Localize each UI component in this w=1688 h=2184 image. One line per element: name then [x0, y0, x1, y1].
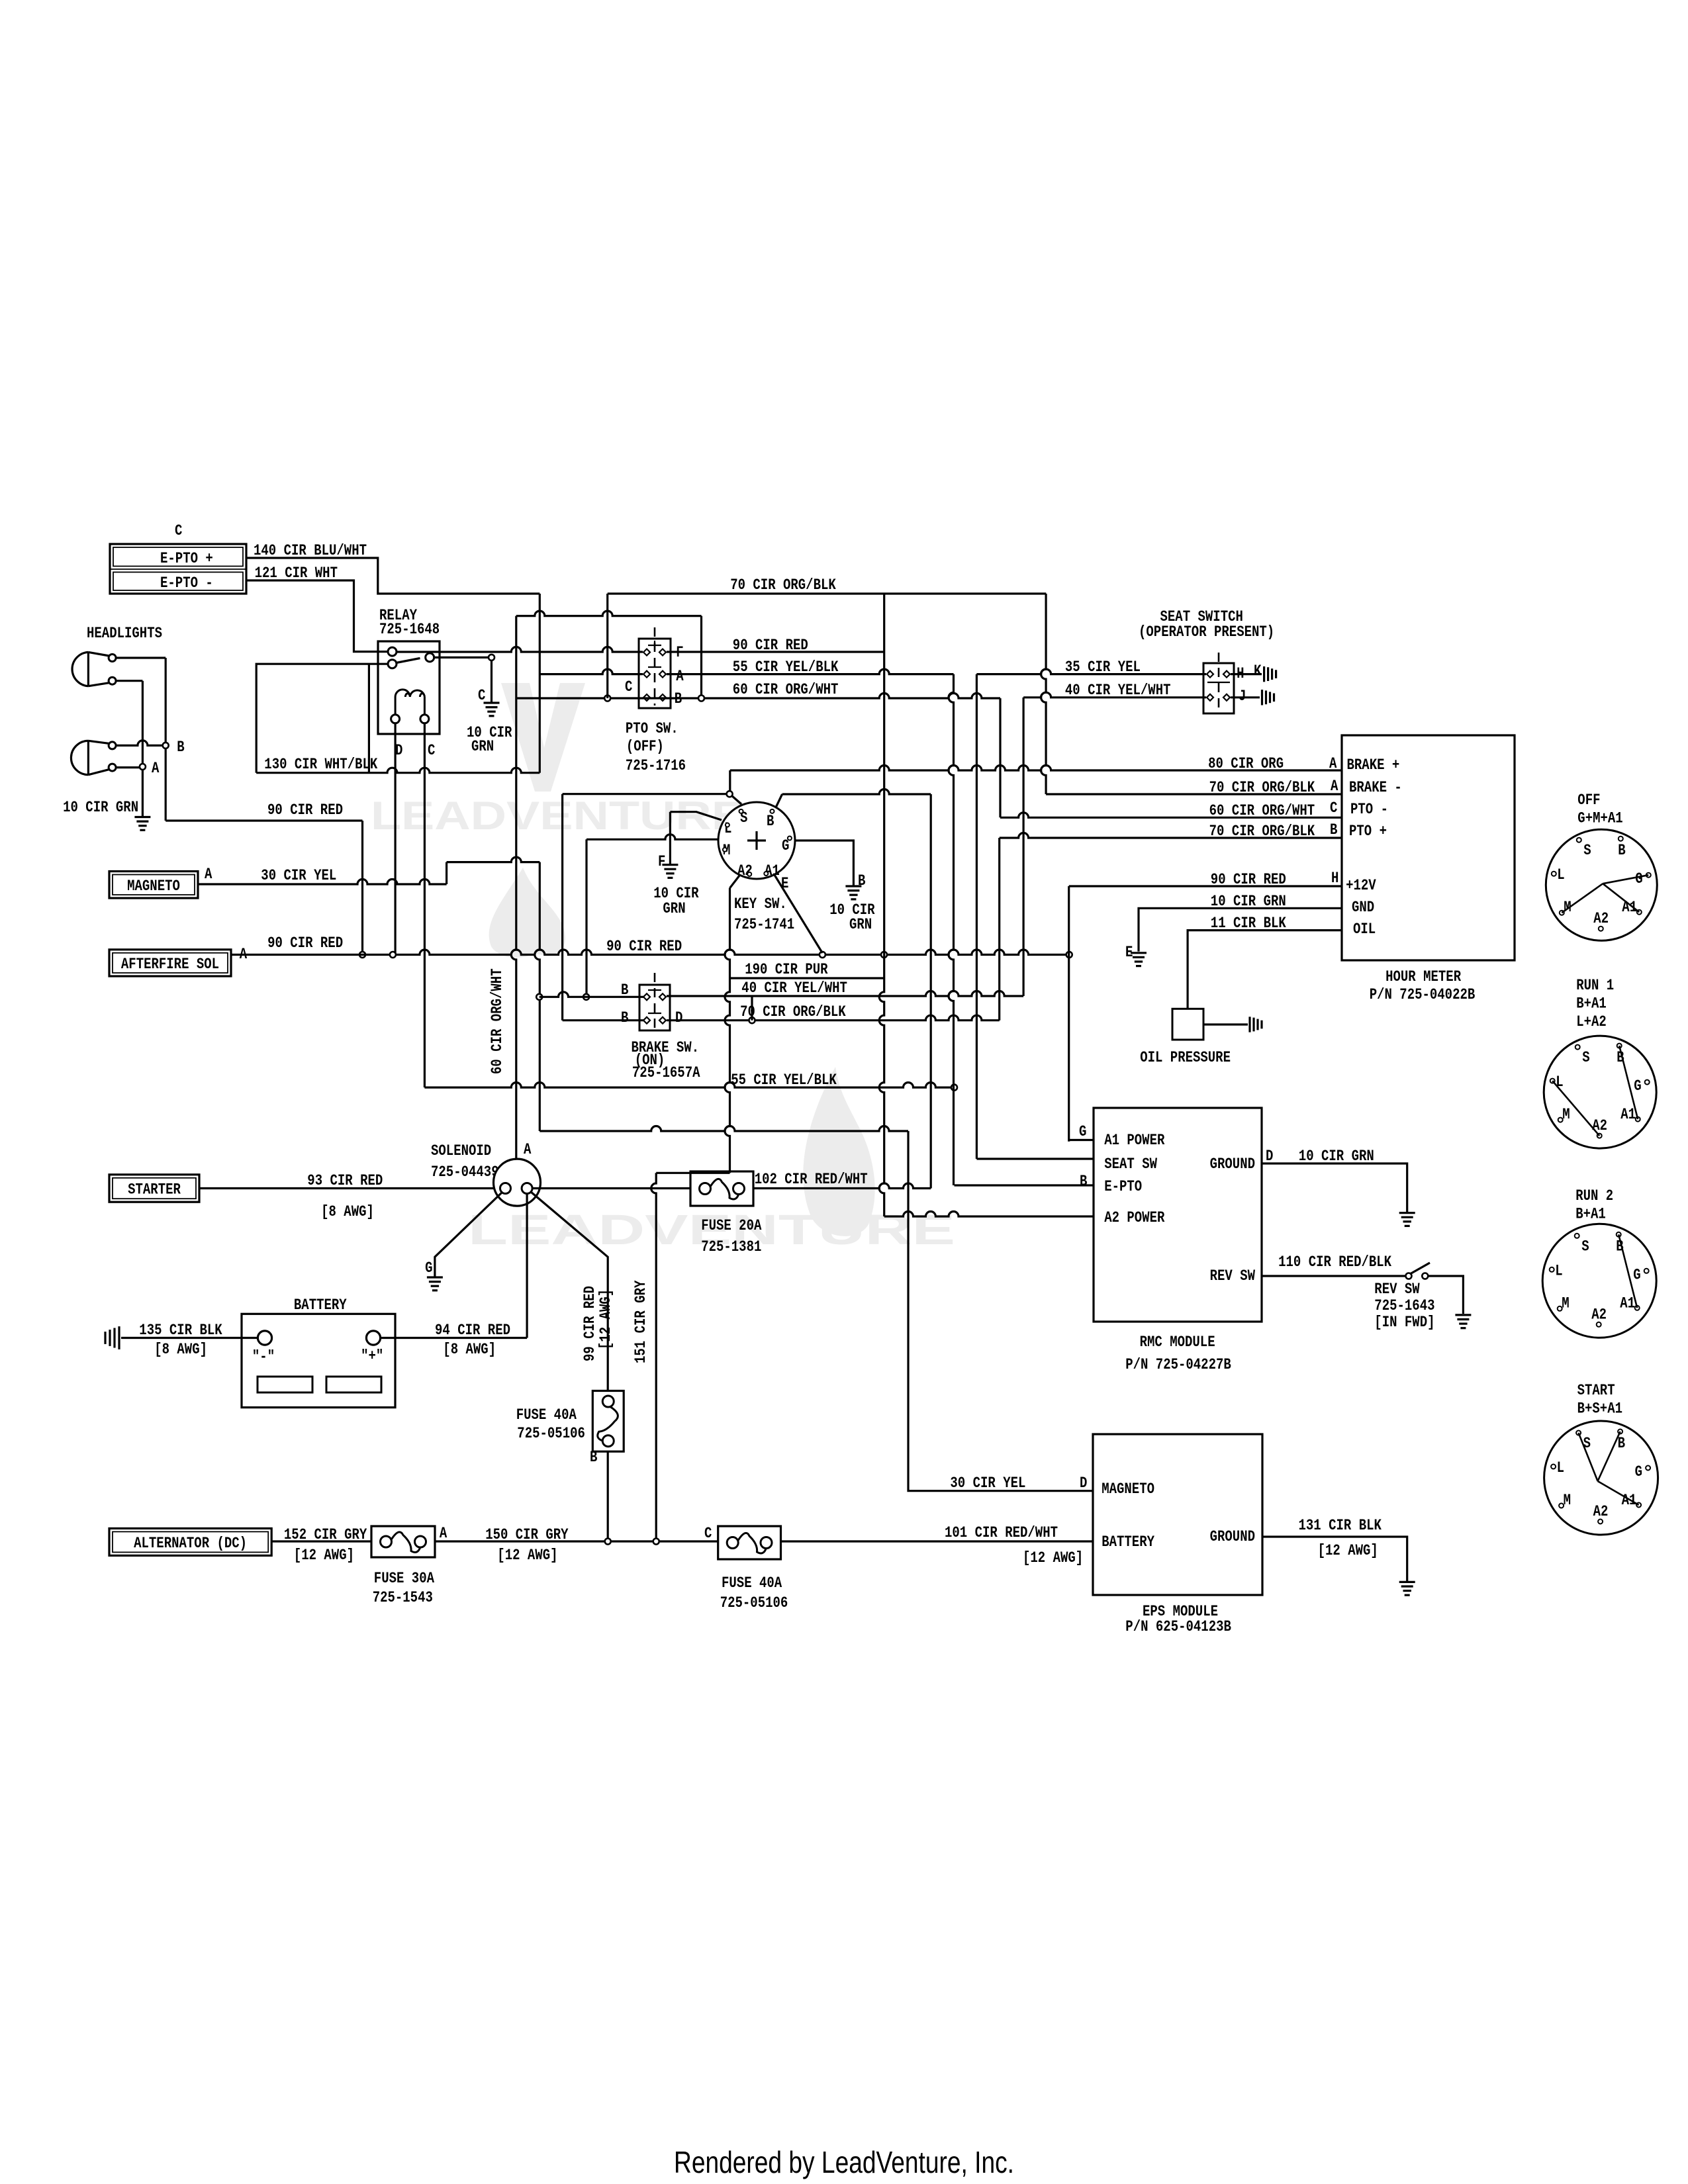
- junction brake bottom row: [749, 1017, 755, 1023]
- junction 55 bus to RMC E-PTO trunk: [951, 1085, 957, 1091]
- svg-text:PTO SW.: PTO SW.: [626, 720, 679, 738]
- svg-text:725-05106: 725-05106: [720, 1594, 788, 1612]
- C row from x851 trunk to key C: [563, 793, 727, 795]
- svg-text:90 CIR RED: 90 CIR RED: [267, 934, 343, 952]
- svg-text:FUSE 20A: FUSE 20A: [701, 1217, 762, 1235]
- svg-text:99 CIR RED: 99 CIR RED: [581, 1286, 599, 1361]
- BRAKE - row from top bus trunk: [1046, 793, 1342, 795]
- FUSE 20A box: [690, 1171, 753, 1206]
- svg-text:BATTERY: BATTERY: [294, 1297, 348, 1314]
- svg-text:B: B: [1080, 1173, 1087, 1191]
- svg-text:L: L: [1557, 866, 1564, 884]
- solenoid G diagonal and ground: [435, 1193, 502, 1277]
- 40 CIR YEL/WHT row from brake: [667, 991, 1023, 997]
- 70 CIR ORG/BLK row from brake bottom: [667, 1015, 1000, 1021]
- vertical trunk x851 from C row to brake switch: [561, 794, 563, 1021]
- svg-text:GROUND: GROUND: [1210, 1156, 1255, 1173]
- svg-text:11 CIR BLK: 11 CIR BLK: [1211, 915, 1287, 933]
- junction 151 on 150 row: [653, 1539, 659, 1545]
- svg-text:HEADLIGHTS: HEADLIGHTS: [87, 625, 162, 643]
- svg-text:90 CIR RED: 90 CIR RED: [606, 938, 682, 956]
- svg-text:A1 POWER: A1 POWER: [1104, 1132, 1165, 1150]
- svg-text:55 CIR YEL/BLK: 55 CIR YEL/BLK: [731, 1071, 837, 1089]
- 11 CIR BLK OIL row: [1188, 931, 1342, 1009]
- seat H ground wire: [1231, 673, 1262, 675]
- svg-text:B: B: [1330, 821, 1337, 839]
- svg-text:GRN: GRN: [663, 900, 685, 918]
- svg-text:GRN: GRN: [849, 916, 872, 934]
- svg-text:102 CIR RED/WHT: 102 CIR RED/WHT: [755, 1171, 868, 1189]
- A2 jog to 151 trunk: [656, 1172, 729, 1174]
- 40 CIR YEL/WHT seat row: [1023, 692, 1206, 697]
- E-PTO connector box: [110, 544, 246, 594]
- svg-text:A1: A1: [1620, 1295, 1635, 1312]
- svg-text:A1: A1: [1620, 1106, 1636, 1124]
- svg-text:140 CIR BLU/WHT: 140 CIR BLU/WHT: [254, 542, 367, 560]
- junction 99 on 150 row: [605, 1539, 611, 1545]
- svg-text:B: B: [590, 1449, 597, 1467]
- svg-text:135 CIR BLK: 135 CIR BLK: [139, 1322, 222, 1340]
- key position RUN 2 circle: [1542, 1224, 1656, 1338]
- seat J ground wire: [1231, 696, 1260, 698]
- wire 121 CIR WHT from E-PTO- to relay contact: [246, 580, 388, 652]
- svg-text:B: B: [177, 739, 184, 756]
- REV SW blade: [1410, 1263, 1430, 1274]
- ALTERNATOR box: [109, 1528, 271, 1555]
- svg-text:A2: A2: [737, 862, 753, 880]
- svg-text:MAGNETO: MAGNETO: [127, 878, 180, 895]
- svg-text:E-PTO: E-PTO: [1104, 1178, 1142, 1196]
- relay 725-1648 box: [378, 641, 440, 734]
- svg-text:A2: A2: [1593, 910, 1609, 928]
- battery cell rectangles: [258, 1377, 312, 1392]
- svg-text:80 CIR ORG: 80 CIR ORG: [1208, 755, 1284, 773]
- vertical hour meter trunk: [1068, 886, 1070, 1142]
- PTO SW pins row F: [643, 649, 650, 656]
- svg-text:35 CIR YEL: 35 CIR YEL: [1065, 659, 1141, 676]
- vertical brake bottom to PTO+ row: [998, 838, 1000, 1021]
- key A2 diagonal: [730, 876, 740, 888]
- svg-text:LEADVENTURE: LEADVENTURE: [371, 794, 745, 838]
- RMC ground wire: [1262, 1163, 1407, 1212]
- 70 CIR ORG/BLK PTO+ row: [1000, 833, 1342, 839]
- vertical wire B trunk: [165, 658, 167, 821]
- svg-text:B: B: [1618, 842, 1625, 860]
- svg-text:110 CIR RED/BLK: 110 CIR RED/BLK: [1278, 1253, 1392, 1271]
- A1 POWER feed: [1069, 1139, 1094, 1141]
- 150 CIR GRY row: [435, 1540, 718, 1542]
- PTO SW actuator dashes: [654, 627, 656, 705]
- connector circle on 60 row: [604, 696, 610, 702]
- headlight lamp 2: [71, 741, 88, 774]
- headlight ground: [134, 816, 150, 818]
- AFTERFIRE SOL box: [109, 950, 231, 976]
- watermark flame 2: [803, 1067, 874, 1236]
- svg-text:70 CIR ORG/BLK: 70 CIR ORG/BLK: [1209, 779, 1315, 797]
- svg-text:40 CIR YEL/WHT: 40 CIR YEL/WHT: [741, 979, 847, 997]
- svg-text:152 CIR GRY: 152 CIR GRY: [284, 1526, 367, 1544]
- battery negative wire and ground: [121, 1337, 258, 1339]
- relay coil terminal D: [391, 715, 400, 723]
- svg-text:55 CIR YEL/BLK: 55 CIR YEL/BLK: [733, 659, 839, 676]
- svg-text:725-1648: 725-1648: [379, 621, 440, 639]
- svg-text:PTO -: PTO -: [1350, 801, 1388, 819]
- junction at brake row x886: [583, 994, 589, 1000]
- svg-text:OIL: OIL: [1353, 921, 1376, 938]
- wire PTO B row 60 CIR ORG/WHT: [516, 694, 1000, 699]
- 90 red link row under top bus: [516, 611, 702, 615]
- svg-text:P/N 725-04227B: P/N 725-04227B: [1125, 1356, 1231, 1374]
- svg-text:C: C: [625, 678, 632, 696]
- svg-text:[12 AWG]: [12 AWG]: [1318, 1542, 1378, 1560]
- watermark V logo: [501, 683, 585, 792]
- wire relay D to 90 bus: [394, 723, 396, 955]
- vertical from top bus to BRAKE - row: [1041, 594, 1046, 794]
- solenoid to 99 CIR RED diagonal: [531, 1192, 608, 1391]
- STARTER box: [109, 1175, 199, 1202]
- wire PTO A row left: [539, 669, 643, 674]
- svg-text:94 CIR RED: 94 CIR RED: [435, 1322, 510, 1340]
- relay coil terminal C: [420, 715, 429, 723]
- svg-text:C: C: [704, 1525, 712, 1543]
- svg-text:10 CIR GRN: 10 CIR GRN: [1299, 1148, 1374, 1165]
- 80 CIR ORG row to hour meter: [730, 766, 1342, 770]
- svg-text:OFF: OFF: [1577, 792, 1600, 809]
- svg-text:ALTERNATOR (DC): ALTERNATOR (DC): [134, 1535, 247, 1553]
- key switch center cross: [747, 839, 766, 841]
- svg-text:(OPERATOR PRESENT): (OPERATOR PRESENT): [1139, 623, 1274, 641]
- svg-text:[8 AWG]: [8 AWG]: [443, 1341, 496, 1359]
- vertical link x557 between relay row and 130 row: [368, 664, 370, 772]
- svg-text:725-1716: 725-1716: [626, 757, 686, 775]
- relay contact top-right: [426, 653, 434, 662]
- wire alternator to fuse 30A: [271, 1540, 371, 1542]
- svg-text:70 CIR ORG/BLK: 70 CIR ORG/BLK: [740, 1003, 846, 1021]
- svg-text:MAGNETO: MAGNETO: [1102, 1480, 1154, 1498]
- solenoid terminals: [500, 1183, 511, 1194]
- wire lamp1 top to B trunk: [116, 657, 165, 659]
- REV SW ground: [1455, 1314, 1471, 1316]
- connector circle on 60 row x1060: [698, 696, 704, 702]
- svg-text:REV SW: REV SW: [1374, 1281, 1420, 1298]
- svg-text:G: G: [1079, 1123, 1086, 1141]
- svg-text:A1: A1: [1622, 1492, 1637, 1510]
- svg-text:725-1381: 725-1381: [701, 1238, 761, 1256]
- FUSE 40A second box: [718, 1526, 781, 1559]
- svg-text:101 CIR RED/WHT: 101 CIR RED/WHT: [945, 1524, 1058, 1542]
- wire lamp1 bottom to A trunk: [116, 680, 142, 682]
- seat actuator dashes: [1218, 653, 1220, 711]
- svg-text:150 CIR GRY: 150 CIR GRY: [485, 1526, 569, 1544]
- key G ground: [845, 885, 861, 887]
- key L ground stem: [669, 812, 671, 865]
- svg-text:L+A2: L+A2: [1576, 1013, 1607, 1031]
- svg-text:"+": "+": [361, 1347, 383, 1365]
- svg-text:A: A: [676, 668, 684, 686]
- svg-text:725-1543: 725-1543: [373, 1589, 433, 1607]
- 151 CIR GRY vertical: [651, 1173, 657, 1541]
- vertical 40 net riser to seat row: [1022, 698, 1024, 996]
- svg-text:725-1741: 725-1741: [734, 916, 794, 934]
- svg-text:RMC MODULE: RMC MODULE: [1140, 1334, 1215, 1351]
- oil pressure ground wire: [1203, 1023, 1248, 1025]
- svg-text:90 CIR RED: 90 CIR RED: [1211, 871, 1286, 889]
- svg-text:725-1643: 725-1643: [1374, 1297, 1434, 1315]
- svg-text:10 CIR GRN: 10 CIR GRN: [63, 799, 138, 817]
- svg-text:B+A1: B+A1: [1576, 995, 1607, 1013]
- svg-text:A2: A2: [1592, 1117, 1607, 1135]
- svg-text:STARTER: STARTER: [128, 1181, 181, 1199]
- relay contact row2: [388, 660, 397, 668]
- solenoid to battery positive: [526, 1194, 528, 1338]
- key position OFF contact lines: [1562, 884, 1603, 913]
- wire magneto riser: [445, 862, 447, 884]
- 90 CIR RED +12V row: [1069, 885, 1342, 887]
- key A2 vertical: [725, 888, 729, 1173]
- svg-text:L: L: [1555, 1262, 1562, 1280]
- svg-text:10 CIR GRN: 10 CIR GRN: [1211, 893, 1286, 911]
- svg-text:E-PTO +: E-PTO +: [160, 550, 213, 568]
- RMC MODULE box: [1094, 1108, 1262, 1322]
- svg-text:131 CIR BLK: 131 CIR BLK: [1299, 1517, 1382, 1535]
- svg-text:725-1657A: 725-1657A: [632, 1064, 700, 1082]
- key position RUN 1 circle: [1544, 1036, 1656, 1148]
- wire brake top row left segment: [539, 992, 644, 997]
- FUSE 30A box: [371, 1526, 435, 1557]
- wire relay C coil to 55 bus: [424, 723, 426, 1087]
- key B row: [782, 790, 931, 794]
- hour meter E ground: [1131, 952, 1147, 954]
- vertical M trunk from key M row to brake switch: [585, 839, 587, 997]
- wire 140 CIR BLU/WHT from E-PTO+: [246, 558, 539, 594]
- svg-text:60 CIR ORG/WHT: 60 CIR ORG/WHT: [1209, 802, 1315, 820]
- svg-text:BATTERY: BATTERY: [1102, 1533, 1155, 1551]
- svg-text:60 CIR ORG/WHT: 60 CIR ORG/WHT: [733, 681, 839, 699]
- PTO SW pins row A: [643, 671, 650, 678]
- node A: [140, 764, 146, 770]
- svg-text:G: G: [1634, 1077, 1641, 1095]
- vertical link between 140 and 130 wires: [539, 594, 541, 773]
- key position START contact lines: [1579, 1433, 1598, 1481]
- vertical 60 trunk: [511, 616, 516, 1159]
- svg-text:GND: GND: [1352, 899, 1374, 917]
- BRAKE SW box: [639, 985, 670, 1030]
- relay switch blade: [397, 659, 420, 663]
- svg-text:M: M: [1562, 1295, 1569, 1312]
- wire relay row2 to left trunk and 130 row: [256, 664, 388, 772]
- svg-text:B: B: [621, 1009, 628, 1027]
- key position START circle: [1544, 1421, 1658, 1535]
- solenoid circle: [494, 1159, 541, 1206]
- battery positive wire: [381, 1337, 528, 1339]
- REV SW ground wire: [1428, 1276, 1463, 1314]
- REV SW wire: [1262, 1275, 1406, 1277]
- svg-text:A: A: [524, 1141, 532, 1159]
- svg-text:S: S: [1583, 842, 1591, 860]
- EPS ground wire: [1262, 1537, 1407, 1582]
- svg-text:C: C: [1330, 799, 1337, 817]
- vertical drop from left 90 red to 90 bus: [361, 821, 363, 955]
- svg-text:130 CIR WHT/BLK: 130 CIR WHT/BLK: [264, 756, 378, 774]
- wire 90 CIR RED from headlight B node: [165, 819, 362, 821]
- svg-text:FUSE 30A: FUSE 30A: [374, 1570, 435, 1588]
- svg-text:M: M: [1562, 1106, 1570, 1124]
- svg-text:B: B: [858, 872, 865, 890]
- svg-text:[IN FWD]: [IN FWD]: [1374, 1314, 1434, 1332]
- svg-text:AFTERFIRE SOL: AFTERFIRE SOL: [121, 956, 219, 974]
- key C riser to 80 row: [729, 770, 731, 791]
- svg-text:D: D: [1080, 1475, 1087, 1492]
- svg-text:S: S: [1582, 1049, 1589, 1067]
- FUSE 40A vertical: [592, 1391, 624, 1452]
- svg-text:A: A: [152, 760, 160, 778]
- junction hour meter trunk on 90 bus: [1066, 952, 1072, 958]
- svg-text:A: A: [440, 1525, 447, 1543]
- brake pins row1: [643, 993, 650, 1000]
- svg-text:(OFF): (OFF): [626, 738, 664, 756]
- svg-text:S: S: [1581, 1238, 1589, 1255]
- svg-text:A2 POWER: A2 POWER: [1104, 1209, 1165, 1227]
- wire 93 CIR RED starter to solenoid: [199, 1187, 494, 1189]
- key C junction circle: [727, 791, 733, 797]
- vertical x1136 riser: [751, 996, 753, 1021]
- vertical from top bus to 60 row connector: [606, 594, 608, 698]
- svg-text:B: B: [1618, 1435, 1625, 1453]
- junction x1335 on 90 bus: [881, 952, 887, 958]
- svg-text:90 CIR RED: 90 CIR RED: [267, 801, 343, 819]
- svg-text:A: A: [205, 866, 212, 884]
- wire 130 CIR WHT/BLK: [256, 768, 539, 773]
- svg-text:BRAKE +: BRAKE +: [1347, 756, 1400, 774]
- seat pins: [1207, 671, 1213, 678]
- key G wire: [795, 841, 853, 886]
- svg-text:K: K: [1254, 662, 1262, 680]
- svg-text:"-": "-": [252, 1348, 275, 1366]
- wire relay output to connector and ground: [434, 657, 492, 659]
- 55 CIR YEL/BLK bottom bus: [424, 1083, 954, 1088]
- key M row: [586, 835, 718, 839]
- svg-text:30 CIR YEL: 30 CIR YEL: [261, 867, 336, 885]
- svg-text:H: H: [1331, 870, 1338, 887]
- svg-text:RUN 2: RUN 2: [1575, 1187, 1613, 1205]
- svg-text:70 CIR ORG/BLK: 70 CIR ORG/BLK: [730, 576, 836, 594]
- wire PTO F row left to relay contact: [397, 647, 643, 652]
- link row drop to 60 row connector: [700, 616, 702, 697]
- wire lamp2 top to node B: [116, 741, 163, 746]
- svg-text:+12V: +12V: [1346, 877, 1376, 895]
- REV SW contacts: [1406, 1273, 1412, 1279]
- svg-text:G: G: [1633, 1266, 1640, 1284]
- svg-text:SOLENOID: SOLENOID: [431, 1142, 491, 1160]
- key F ground: [662, 864, 678, 866]
- magneto trunk below brake to 30 CIR YEL row: [539, 997, 541, 1131]
- seat switch box: [1203, 663, 1234, 713]
- key L wire: [670, 812, 722, 820]
- HOUR METER box: [1342, 735, 1515, 960]
- svg-text:M: M: [1564, 1492, 1571, 1510]
- 30 CIR YEL feed to EPS: [908, 1131, 1093, 1491]
- svg-text:A: A: [1329, 755, 1337, 773]
- solenoid ground: [427, 1276, 443, 1278]
- svg-text:START: START: [1577, 1382, 1615, 1400]
- svg-text:151 CIR GRY: 151 CIR GRY: [632, 1280, 650, 1363]
- vertical seat 35 to RMC SEAT SW: [976, 674, 978, 1159]
- svg-text:GRN: GRN: [471, 738, 494, 756]
- OIL PRESSURE box: [1172, 1009, 1203, 1040]
- svg-text:C: C: [428, 742, 435, 760]
- svg-text:[12 AWG]: [12 AWG]: [597, 1289, 615, 1349]
- brake pins row2: [643, 1017, 650, 1024]
- svg-text:KEY SW.: KEY SW.: [734, 895, 787, 913]
- brake bottom left wire from x851 trunk: [563, 1019, 644, 1021]
- junction A1 diagonal on 90 bus: [820, 952, 825, 958]
- wire solenoid to fuse 20A: [532, 1187, 690, 1189]
- svg-text:S: S: [1583, 1435, 1591, 1453]
- svg-text:REV SW: REV SW: [1210, 1267, 1256, 1285]
- svg-text:P/N 625-04123B: P/N 625-04123B: [1125, 1618, 1231, 1636]
- svg-text:60 CIR ORG/WHT: 60 CIR ORG/WHT: [489, 968, 506, 1074]
- svg-text:A2: A2: [1593, 1503, 1609, 1521]
- svg-text:B+A1: B+A1: [1575, 1206, 1606, 1224]
- key switch circle: [718, 802, 795, 879]
- svg-text:[8 AWG]: [8 AWG]: [154, 1341, 207, 1359]
- svg-text:E-PTO -: E-PTO -: [160, 574, 213, 592]
- wire 30 CIR YEL from magneto: [198, 880, 447, 884]
- PTO SW pins row B: [643, 694, 650, 701]
- relay ground: [484, 702, 500, 704]
- svg-text:FUSE 40A: FUSE 40A: [722, 1574, 782, 1592]
- 35 CIR YEL row: [976, 669, 1206, 674]
- svg-text:A2: A2: [1591, 1306, 1607, 1324]
- vertical x1335 trunk from top bus to RMC A2 POWER: [879, 594, 884, 1216]
- 90 CIR RED main bus: [231, 950, 1069, 954]
- EPS MODULE box: [1093, 1434, 1262, 1595]
- 101 CIR RED/WHT row to EPS: [781, 1540, 1094, 1542]
- svg-text:725-05106: 725-05106: [517, 1425, 585, 1443]
- vertical 55 bus to E-PTO: [949, 674, 953, 1185]
- svg-text:D: D: [675, 1009, 682, 1027]
- relay contact top-left: [388, 647, 397, 656]
- battery box: [242, 1314, 395, 1407]
- svg-text:RUN 1: RUN 1: [1576, 977, 1614, 995]
- key position OFF circle: [1546, 829, 1657, 940]
- svg-text:PTO +: PTO +: [1349, 823, 1387, 841]
- vertical 60 net riser: [999, 698, 1001, 817]
- svg-text:B: B: [621, 981, 628, 999]
- SEAT SW feed: [976, 1158, 1094, 1160]
- relay coil: [395, 690, 424, 715]
- EPS ground symbol: [1399, 1581, 1415, 1583]
- svg-text:GROUND: GROUND: [1210, 1528, 1255, 1546]
- key position RUN 2 contact lines: [1618, 1234, 1637, 1308]
- key C terminal diagonal: [731, 796, 741, 804]
- key switch terminal dots: [739, 809, 743, 813]
- vertical key B to 102 row: [930, 794, 932, 1189]
- key A1 diagonal to 90 bus: [774, 875, 822, 953]
- svg-text:C: C: [175, 522, 182, 540]
- svg-text:D: D: [395, 742, 402, 760]
- node B: [163, 743, 169, 749]
- svg-text:SEAT SW: SEAT SW: [1104, 1156, 1158, 1173]
- svg-text:[12 AWG]: [12 AWG]: [1023, 1549, 1083, 1567]
- svg-text:40 CIR YEL/WHT: 40 CIR YEL/WHT: [1065, 682, 1171, 700]
- wire PTO F row right 90 CIR RED: [667, 651, 884, 653]
- svg-text:Rendered by LeadVenture, Inc.: Rendered by LeadVenture, Inc.: [674, 2145, 1014, 2179]
- watermark flame 1: [489, 868, 565, 958]
- brake actuator dashes: [654, 973, 656, 1028]
- svg-text:L: L: [1557, 1459, 1564, 1477]
- svg-text:BRAKE -: BRAKE -: [1349, 779, 1402, 797]
